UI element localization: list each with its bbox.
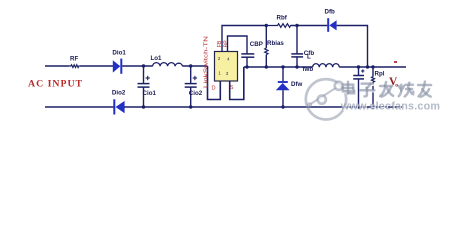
node junction Cio2 top (189, 64, 192, 67)
svg-text:LinkSwitch-TN: LinkSwitch-TN (203, 36, 209, 88)
svg-text:Rbf: Rbf (277, 15, 288, 22)
diode Dfw (276, 67, 303, 107)
svg-text:Lo1: Lo1 (151, 55, 163, 62)
svg-text:Dio1: Dio1 (112, 50, 126, 57)
wire top rail left (45, 65, 69, 67)
svg-text:RF: RF (70, 56, 78, 63)
node junction Cio2 bottom (189, 105, 192, 108)
node junction Co top (357, 65, 360, 68)
node junction feedback drop (366, 65, 369, 68)
svg-text:o: o (395, 83, 398, 89)
node junction Rbias bottom (265, 65, 268, 68)
inductor Lfwb (303, 54, 340, 73)
IC U1 LinkSwitch-TN body (215, 52, 238, 82)
wire (122, 65, 152, 67)
node junction Cio1 bottom (142, 105, 145, 108)
node Vo output label (389, 76, 398, 88)
wire FB pin up (222, 26, 266, 52)
wire source path (230, 67, 244, 100)
svg-text:Cio2: Cio2 (189, 90, 203, 97)
wire (291, 25, 327, 27)
watermark logo circle (306, 79, 346, 119)
node junction Co bottom (357, 105, 360, 108)
wire drain descent (208, 66, 221, 100)
wire BP pin up (228, 36, 248, 54)
svg-text:Dfw: Dfw (291, 81, 303, 88)
node junction Cio1 top (142, 64, 145, 67)
watermark chinese text dianzifashaoyou (343, 82, 432, 98)
svg-text:Rpl: Rpl (375, 71, 385, 78)
wire bottom rail left (45, 106, 114, 108)
resistor Rbias (265, 26, 285, 68)
diode Dio2 (112, 89, 126, 114)
resistor Rpl (372, 67, 385, 107)
node Vo red tick (394, 61, 397, 63)
node junction FB/Rbias (265, 24, 268, 27)
resistor RF (69, 65, 80, 68)
capacitor Co output electrolytic (353, 67, 364, 107)
capacitor Cio1 (138, 66, 157, 107)
capacitor CBP (241, 41, 263, 67)
resistor Rbf (266, 15, 291, 28)
wire to output node (337, 26, 368, 68)
wire mid rail (244, 66, 313, 68)
node junction Dfw top (281, 65, 284, 68)
svg-text:Cio1: Cio1 (143, 90, 157, 97)
node junction Cfb bottom (295, 65, 298, 68)
wire mid rail right (339, 66, 406, 68)
svg-text:fwb: fwb (303, 66, 314, 73)
node junction Cfb (295, 24, 298, 27)
svg-text:BP: BP (223, 40, 229, 48)
wire (80, 65, 113, 67)
svg-text:www.elecfans.com: www.elecfans.com (340, 100, 440, 112)
svg-text:L: L (307, 54, 311, 61)
node junction Rpl bottom (371, 105, 374, 108)
wire (183, 65, 208, 67)
svg-text:CBP: CBP (250, 41, 263, 48)
diode Dfb (325, 9, 337, 32)
svg-text:AC INPUT: AC INPUT (28, 79, 83, 90)
svg-text:Dio2: Dio2 (112, 89, 126, 96)
diode Dio1 (112, 50, 126, 74)
inductor Lo1 (151, 55, 183, 66)
node junction Rpl top (371, 65, 374, 68)
capacitor Cfb (291, 26, 314, 68)
node junction CBP bottom (245, 65, 248, 68)
wire bottom rail (124, 106, 402, 108)
svg-text:Dfb: Dfb (325, 9, 336, 16)
svg-text:D: D (212, 86, 216, 92)
svg-text:Rbias: Rbias (267, 40, 284, 47)
capacitor Cio2 (185, 66, 203, 107)
node junction Dfw bottom (281, 105, 284, 108)
